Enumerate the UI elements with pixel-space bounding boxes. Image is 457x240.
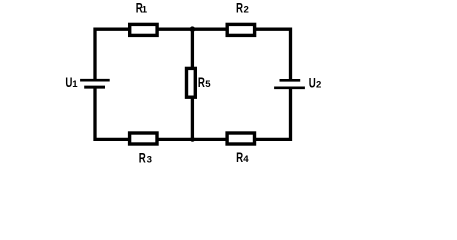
label R2 (236, 1, 249, 16)
wire: middle branch through R5 (191, 29, 194, 139)
resistor R4 (227, 133, 254, 144)
svg-text:R: R (236, 1, 243, 16)
junction dot bottom node (190, 137, 195, 142)
label R3 (139, 151, 152, 166)
resistor R2 (227, 24, 254, 35)
label R1 (136, 1, 148, 16)
svg-text:U: U (309, 76, 316, 91)
svg-text:R: R (139, 151, 146, 166)
svg-text:2: 2 (244, 5, 249, 16)
label U1 (65, 75, 78, 90)
label R5 (198, 76, 211, 91)
svg-text:5: 5 (205, 79, 211, 90)
svg-text:3: 3 (147, 154, 152, 165)
wire: top rail with upper left and upper right verticals (95, 29, 291, 80)
svg-text:1: 1 (142, 5, 148, 16)
label U2 (309, 76, 322, 91)
resistor R5 (187, 68, 196, 97)
label R4 (236, 151, 249, 166)
resistor R3 (130, 133, 157, 144)
junction dot top node (190, 26, 196, 32)
battery U2 long plate (274, 86, 305, 89)
svg-text:2: 2 (316, 79, 321, 90)
svg-text:1: 1 (72, 79, 78, 90)
battery U1 short plate (84, 86, 105, 89)
svg-text:4: 4 (243, 154, 249, 165)
battery U2 short plate (280, 79, 301, 82)
wire: bottom rail with lower left and lower right verticals (95, 87, 291, 139)
battery U1 long plate (80, 79, 110, 82)
resistor R1 (130, 24, 157, 35)
